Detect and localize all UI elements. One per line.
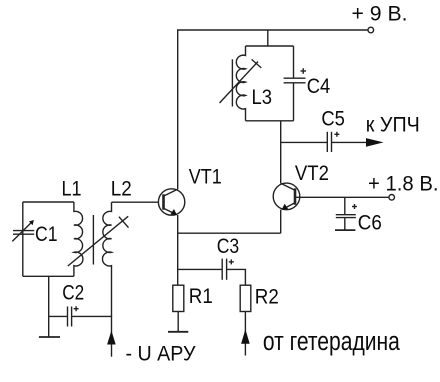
terminal +9V [368,27,374,33]
wire C3 to R2 [227,269,246,285]
terminal +1.8V [389,195,395,201]
wire AGC input [111,316,113,356]
ground below C6 [335,229,355,231]
svg-text:C2: C2 [62,282,84,305]
svg-text:+ 9 В.: + 9 В. [352,3,408,26]
wire L2 to VT1 base [112,201,159,203]
svg-text:R1: R1 [189,285,213,308]
capacitor C2 [68,306,79,326]
node tank top wire [246,45,294,47]
svg-text:L1: L1 [62,177,82,200]
capacitor C3 [222,259,234,280]
svg-text:к УПЧ: к УПЧ [366,114,420,137]
node tank bottom wire [246,120,294,122]
capacitor C1 [12,202,34,276]
transistor VT2 [273,183,300,210]
resistor R1 [173,285,184,311]
svg-text:L2: L2 [111,177,132,200]
wire R1 to ground [177,311,179,331]
svg-text:C4: C4 [307,75,331,98]
node input tank rectangle [23,201,74,203]
transformer core [92,215,94,265]
inductor L2 [68,202,129,317]
svg-text:от гетерадина: от гетерадина [263,328,401,356]
capacitor C5 [327,132,339,152]
inductor L3 [220,46,262,121]
ground below R1 [168,331,188,333]
wire R2 input [244,312,246,356]
svg-text:C6: C6 [358,211,382,234]
wire C5 branch [281,141,328,143]
resistor R2 [240,285,251,311]
transistor VT1 [158,189,184,215]
wire C3 line [178,268,223,270]
wire VT2 emitter down [280,210,282,234]
svg-text:- U АРУ: - U АРУ [126,343,197,366]
output arrow to IF [366,138,384,147]
svg-text:L3: L3 [252,86,273,109]
wire C1 tank to C2 [48,276,50,337]
svg-text:C3: C3 [217,235,240,258]
wire emitter join line [178,232,281,234]
wire top +9V rail [178,30,368,189]
wire tank to VT2 collector [280,121,282,184]
svg-text:C1: C1 [35,223,58,246]
wire C5 to output [332,141,370,143]
wire stub rail to L3C4 tank [267,30,269,46]
input arrow от гетерадина [241,329,250,344]
svg-text:+ 1.8 В.: + 1.8 В. [368,173,439,196]
wire C2 to L2 bottom [72,315,112,317]
svg-text:VT2: VT2 [295,162,329,185]
svg-text:C5: C5 [321,108,345,131]
svg-text:VT1: VT1 [189,166,222,189]
capacitor C6 [336,197,357,230]
capacitor C4 [284,46,306,121]
inductor L1 [74,202,83,276]
ground below C2 [39,336,60,338]
wire VT2 base to bias [295,196,389,198]
wire VT1 emitter down [177,215,179,285]
input arrow -U АРУ [107,331,116,345]
wire tank bottom [23,275,74,277]
wire C2 line [49,315,68,317]
svg-text:R2: R2 [255,286,279,309]
